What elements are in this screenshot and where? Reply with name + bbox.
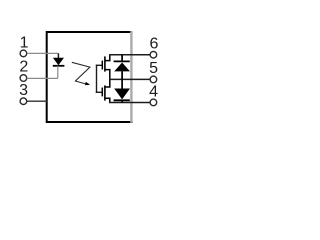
pin 5 terminal circle [150, 76, 157, 83]
pin 3 terminal circle [20, 98, 27, 105]
wire drain Q2 to pin 4 (bottom rail) [109, 102, 150, 104]
svg-text:4: 4 [149, 84, 158, 101]
pin 1 terminal circle [20, 50, 27, 57]
wire common source to pin 5 (middle rail) [109, 78, 150, 80]
svg-text:5: 5 [149, 60, 158, 77]
MOSFET Q1 (upper) [102, 55, 110, 80]
MOSFET Q2 (lower) [102, 79, 110, 102]
svg-text:6: 6 [150, 36, 159, 53]
wire drain Q1 to pin 6 (top rail) [109, 54, 150, 56]
package outline box [47, 32, 133, 122]
pin 6 terminal circle [150, 51, 157, 58]
pin 2 terminal circle [20, 75, 27, 82]
gate bus wire [96, 65, 103, 93]
body diode D3 (lower, cathode down) [114, 79, 130, 102]
wire pin1 to LED anode [27, 52, 59, 54]
LED D1 input diode [53, 53, 65, 78]
wire pin2 to LED cathode [27, 77, 58, 79]
body diode D2 (upper, cathode up) [114, 55, 130, 80]
wire pin3 stub (NC) [27, 100, 48, 102]
svg-text:3: 3 [19, 82, 28, 99]
package outline right edge (grey) [130, 31, 132, 123]
svg-text:1: 1 [20, 35, 29, 52]
svg-text:2: 2 [19, 59, 28, 76]
light emission zigzag arrow [72, 62, 90, 85]
pin 4 terminal circle [150, 99, 157, 106]
